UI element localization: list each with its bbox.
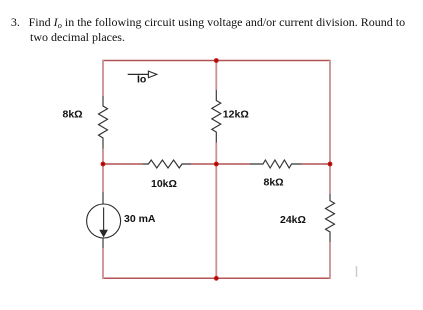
resistor 24k (vertical, right edge) [326, 194, 335, 242]
current source leads [102, 192, 104, 248]
wire middle vertical segments [215, 60, 217, 279]
Io arrow line [128, 73, 149, 75]
current source 30mA circle [87, 204, 121, 238]
wire bottom rail [103, 277, 330, 279]
svg-text:24kΩ: 24kΩ [280, 214, 306, 226]
wire middle rail right red parts [216, 163, 330, 165]
junction dot top middle [214, 58, 219, 63]
svg-text:3.Find Io in the following cir: 3.Find Io in the following circuit using… [11, 15, 405, 30]
junction dot bottom middle [214, 276, 219, 281]
junction dot inner cores [102, 59, 331, 279]
svg-text:two decimal places.: two decimal places. [30, 30, 125, 44]
wire middle rail left red parts [103, 163, 216, 165]
junction dot left middle [101, 162, 106, 167]
junction dot right middle [328, 162, 333, 167]
wire top rail [103, 60, 330, 62]
junction dot center [214, 162, 219, 167]
current source arrow [103, 207, 105, 231]
svg-text:10kΩ: 10kΩ [151, 178, 177, 190]
Io arrowhead (open) [148, 71, 156, 78]
wire left edge segments [102, 60, 104, 279]
svg-text:Io: Io [137, 74, 146, 86]
svg-text:8kΩ: 8kΩ [63, 109, 83, 121]
resistor 10k (horizontal, mid rail left) [142, 160, 191, 168]
resistor 8k right (horizontal, mid rail right) [250, 160, 302, 168]
svg-text:12kΩ: 12kΩ [223, 109, 249, 121]
svg-text:8kΩ: 8kΩ [264, 177, 284, 189]
resistor 8k left (vertical, on left edge) [99, 96, 108, 149]
svg-text:30 mA: 30 mA [124, 213, 156, 225]
gray artifact mark [356, 266, 358, 277]
wire right edge segments [329, 60, 331, 279]
resistor 12k (vertical, middle branch) [212, 90, 221, 143]
